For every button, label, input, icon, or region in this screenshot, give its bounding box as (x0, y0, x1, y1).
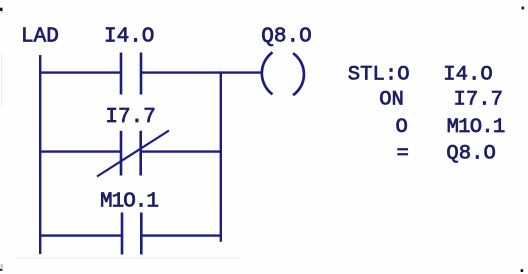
contact M10.1 (122, 213, 141, 255)
coil Q8.0 (262, 52, 304, 95)
wire rung 2 right segment (141, 150, 222, 152)
contact I4.0 (121, 53, 141, 95)
scan artifact: top-right dot (522, 7, 525, 10)
svg-text:Q8.O: Q8.O (261, 25, 311, 48)
svg-text:LAD: LAD (21, 25, 59, 48)
scan artifact: top-left tick (0, 8, 3, 11)
svg-text:ON: ON (379, 88, 404, 111)
svg-text:I7.7: I7.7 (454, 88, 503, 111)
wire rung 3 left segment (39, 234, 122, 236)
svg-text:I7.7: I7.7 (105, 106, 155, 129)
wire rung 1 right segment (141, 71, 261, 73)
scan artifact: bottom-right dot (521, 269, 524, 272)
scan artifact: bottom-left smudge (1, 264, 4, 268)
svg-text:Q8.O: Q8.O (446, 142, 495, 165)
wire rung 3 right segment (141, 234, 222, 236)
svg-text:M1O.1: M1O.1 (100, 191, 158, 214)
svg-text:O: O (396, 116, 408, 139)
scan artifact: faint bottom streak (15, 257, 240, 259)
contact I7.7 (normally closed) (97, 131, 169, 177)
wire rung 1 left segment (39, 71, 121, 73)
svg-text:STL:O: STL:O (348, 64, 410, 87)
svg-text:I4.O: I4.O (443, 64, 492, 87)
svg-text:M1O.1: M1O.1 (447, 116, 505, 139)
wire left power rail (39, 55, 41, 254)
wire branch junction vertical (220, 71, 222, 241)
wire rung 2 left segment (39, 150, 121, 152)
svg-text:I4.O: I4.O (104, 25, 154, 48)
svg-text:=: = (397, 142, 409, 165)
scan artifact: faint left edge line (1, 55, 3, 105)
